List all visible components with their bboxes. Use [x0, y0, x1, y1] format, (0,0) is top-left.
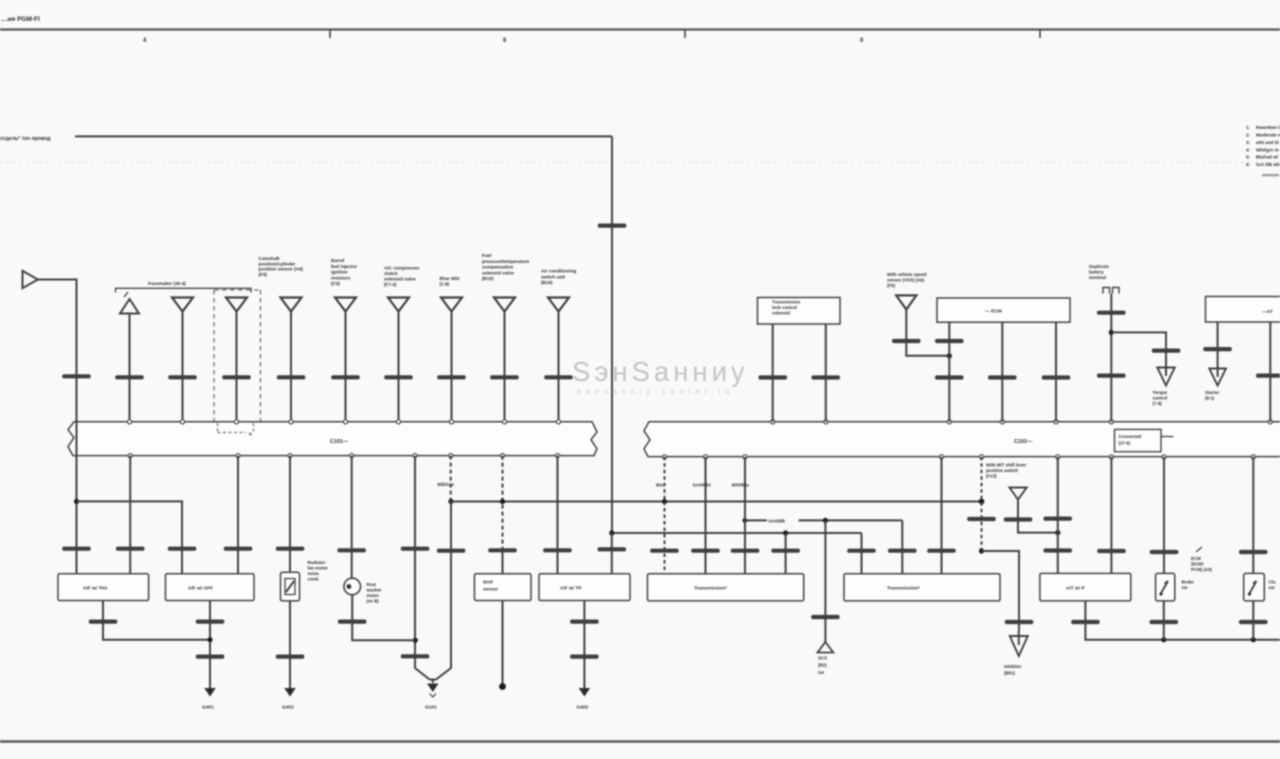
junction on left feed wire: [74, 499, 79, 504]
shared ground rail H1: [451, 501, 982, 503]
svg-text:(7-8): (7-8): [1153, 401, 1163, 406]
junction H1 x664: [662, 499, 667, 504]
wire T5 to ECM: [345, 312, 347, 422]
svg-text:position/cylinder: position/cylinder: [259, 261, 296, 266]
wire box2 bottom to ground: [209, 601, 211, 689]
connector tick: [691, 549, 720, 553]
bottom border line: [0, 740, 1280, 742]
svg-text:position switch: position switch: [986, 468, 1018, 473]
connector tick: [1097, 374, 1126, 378]
terminal arrow down C: [1010, 636, 1028, 656]
label near switches: [1191, 556, 1213, 572]
connector tick: [116, 547, 145, 551]
connector tick: [650, 549, 679, 553]
connector C4 tick: [168, 547, 197, 551]
connector tick T5: [331, 375, 360, 379]
terminal T4 (down triangle): [281, 298, 302, 312]
svg-text:switch unit: switch unit: [541, 274, 565, 279]
connector tick: [488, 548, 517, 552]
svg-text:compensation: compensation: [482, 265, 513, 270]
svg-text:Radiator: Radiator: [308, 560, 326, 565]
connector tick: [276, 547, 305, 551]
svg-text:(27-6): (27-6): [1119, 441, 1131, 446]
connector tick T9: [544, 375, 573, 379]
svg-text:— ECM: — ECM: [985, 309, 1002, 315]
connector tick T6: [384, 375, 413, 379]
wire ECM A pin6 solid: [450, 502, 452, 664]
svg-text:(B19): (B19): [541, 280, 553, 285]
box top-left (relay box): [758, 298, 841, 325]
connector tick: [771, 549, 800, 553]
svg-text:solenoid: solenoid: [772, 311, 790, 316]
connector tick: [935, 375, 964, 379]
junction H3 start: [742, 518, 747, 523]
wire main feed vertical: [611, 136, 613, 533]
wire box1 bottom: [103, 601, 210, 640]
wire ECM A pin1 to box1: [129, 456, 131, 574]
svg-text:C101—: C101—: [330, 439, 349, 445]
dashed option box: [214, 290, 261, 422]
wire ECM A pin3 to condenser: [289, 456, 291, 573]
wire TR pin1 to arrow: [1217, 322, 1219, 369]
junction H1 left end: [448, 499, 453, 504]
svg-text:motor: motor: [367, 593, 380, 598]
terminal T9 (down triangle): [548, 298, 569, 312]
terminal arrow down B: [1209, 369, 1226, 386]
svg-text:Connected: Connected: [1119, 434, 1142, 439]
svg-text:G4: G4: [818, 670, 824, 675]
wire main feed horizontal: [75, 135, 612, 137]
box1 component: [58, 574, 149, 601]
connector tick: [401, 547, 430, 551]
fuse symbol: [1103, 288, 1119, 294]
connector tick: [888, 549, 917, 553]
terminal VSS (down triangle): [896, 295, 916, 309]
junction pin5/sensor branch: [413, 638, 418, 643]
terminal T6 (down triangle): [388, 298, 409, 312]
wire pin e branch elbow: [982, 551, 1020, 630]
connector tick: [570, 620, 599, 624]
svg-text:solenoid valve: solenoid valve: [384, 277, 416, 282]
wire branch to box2: [77, 501, 183, 574]
svg-text:Transmission*: Transmission*: [694, 586, 727, 592]
wire test tap from H3: [824, 520, 826, 642]
wire DLC pin1: [948, 322, 950, 422]
svg-text:(F5): (F5): [259, 272, 268, 277]
svg-text:SэнSанниу: SэнSанниу: [572, 356, 749, 387]
wire switch1 to rail: [1163, 601, 1165, 640]
svg-text:position sensor (A6): position sensor (A6): [259, 267, 304, 272]
box8 component: [844, 574, 1000, 601]
svg-text:Air conditioning: Air conditioning: [541, 269, 576, 274]
svg-text:G402: G402: [577, 705, 589, 711]
svg-text:Transmission*: Transmission*: [887, 586, 920, 592]
label VSS sensor: [887, 272, 927, 288]
svg-text:A/F w/ OFF: A/F w/ OFF: [188, 586, 213, 592]
svg-text:lock control: lock control: [772, 305, 797, 310]
svg-text:Clu: Clu: [1269, 580, 1276, 585]
connector tick: [935, 339, 964, 343]
connector C1 on main feed: [598, 224, 627, 228]
ground G4: [579, 688, 591, 697]
svg-text:(F7-4): (F7-4): [384, 282, 397, 287]
svg-text:solenoid valve: solenoid valve: [482, 270, 514, 275]
column tick 3: [1039, 29, 1041, 38]
wire ECM B pin h to switch1: [1163, 457, 1165, 574]
terminal T3 (down triangle): [226, 298, 247, 312]
connector tick: [1097, 311, 1126, 315]
connector tick: [1239, 550, 1268, 554]
svg-text:(B15): (B15): [482, 276, 494, 281]
connector tick: [570, 655, 599, 659]
ground G1: [204, 688, 216, 697]
wire main feed into box6: [611, 533, 613, 574]
terminal T8 (down triangle): [494, 298, 515, 312]
connector tick: [276, 655, 305, 659]
wire VSS down: [906, 310, 949, 356]
connector tick: [598, 547, 627, 551]
connector C2 tick: [62, 374, 90, 378]
connector tick: [1203, 347, 1232, 351]
connector tick: [1044, 517, 1073, 521]
connector tick: [437, 549, 466, 553]
knock sensor circle: [344, 578, 361, 595]
svg-text:cond.: cond.: [308, 577, 320, 582]
connector tick: [1004, 517, 1033, 521]
svg-text:ignition: ignition: [331, 270, 348, 275]
svg-text:(ECM/: (ECM/: [1191, 562, 1204, 567]
junction H1 x502: [500, 499, 505, 504]
connector tick: [1097, 549, 1126, 553]
svg-text:(F13): (F13): [986, 474, 997, 479]
svg-text:pressure/temperature: pressure/temperature: [482, 259, 530, 264]
svg-text:G101: G101: [425, 705, 437, 711]
svg-text:Wht/grn m: Wht/grn m: [1256, 148, 1279, 153]
svg-text:Wht/Blu: Wht/Blu: [732, 483, 750, 488]
wire fuse to ECM B: [1110, 294, 1112, 422]
wire T7 to ECM: [451, 312, 453, 422]
wire fuse branch to arrow: [1111, 332, 1166, 367]
wire small triangle down-right: [1018, 500, 1058, 533]
svg-text:1:: 1:: [1246, 125, 1251, 130]
column tick 2: [684, 29, 686, 38]
svg-text:A/F w/ TP: A/F w/ TP: [560, 586, 582, 592]
svg-text:Blk/Grn: Blk/Grn: [438, 482, 455, 487]
wire ECM A pin5 down: [414, 456, 416, 663]
svg-text:(C5): (C5): [331, 281, 340, 286]
label above T4: [259, 256, 304, 277]
switch2 label: [1269, 580, 1276, 591]
svg-text:battery: battery: [1089, 270, 1104, 275]
svg-text:SCS: SCS: [818, 656, 827, 661]
svg-text:(B2): (B2): [818, 663, 827, 668]
svg-text:(1-8): (1-8): [440, 282, 450, 287]
connector tick: [1071, 620, 1100, 624]
terminal arrow down A: [1157, 368, 1174, 386]
wire from left arrow: [38, 280, 77, 575]
switch1 label: [1182, 580, 1195, 591]
svg-text:Camshaft: Camshaft: [259, 256, 280, 261]
svg-text:Starter: Starter: [1205, 390, 1219, 395]
connector tick T1: [115, 375, 144, 379]
switch2 component: [1244, 573, 1265, 601]
wire box6 bottom to ground: [583, 601, 585, 689]
svg-text:5:: 5:: [1246, 155, 1251, 160]
svg-text:Torque: Torque: [1153, 390, 1168, 395]
svg-text:4: 4: [143, 38, 147, 44]
service check terminal (up triangle): [818, 642, 834, 653]
connector tick: [89, 620, 118, 624]
svg-text:sw: sw: [1269, 585, 1275, 590]
dashed option box bottom stubs: [218, 423, 254, 433]
connector tick: [1044, 548, 1073, 552]
merge wires to ground Y: [415, 663, 451, 680]
condenser label: [308, 560, 329, 582]
svg-text:resistors: resistors: [331, 275, 351, 280]
wire DLC pin2: [1001, 322, 1003, 422]
connector tick: [1150, 550, 1179, 554]
svg-text:6:: 6:: [1246, 162, 1251, 167]
junction main feed / H2: [609, 530, 614, 535]
label above T7: [440, 276, 460, 287]
svg-text:отдель* точ провод: отдель* точ провод: [0, 136, 51, 142]
connector tick: [196, 620, 225, 624]
ECM A top pin circles: [127, 420, 560, 424]
wire ECM B pin f to box9: [1057, 457, 1059, 574]
wire ECM B pin d to box8: [941, 457, 943, 574]
connector tick: [967, 517, 996, 521]
signal rail H3 with label: [745, 519, 767, 521]
svg-text:noise: noise: [308, 571, 320, 576]
label above T8: [482, 253, 530, 281]
connector tick: [847, 549, 876, 553]
column tick 1: [329, 29, 331, 38]
wire box5 bottom to splice: [502, 601, 504, 685]
svg-text:sensor (VSS) (A6): sensor (VSS) (A6): [887, 278, 925, 283]
box5 component: [475, 574, 532, 601]
label above T5: [331, 258, 357, 286]
junction small triangle / pin f: [1055, 530, 1060, 535]
wire ECM A pin6 dashed: [450, 456, 452, 502]
connector tick: [337, 548, 366, 552]
ECM connector strip A (left bus): [68, 422, 597, 456]
ECM strip B sub connector box: [1115, 429, 1162, 451]
wire TR pin2 to ECM B: [1269, 322, 1271, 422]
svg-text:Transmission: Transmission: [772, 300, 801, 305]
wire T9 to ECM: [558, 312, 560, 422]
connector tick: [759, 375, 788, 379]
wire ECM B pin a (dashed) to box7: [664, 457, 666, 502]
wire T1 to ECM: [129, 314, 131, 422]
svg-text:A/C compressor: A/C compressor: [384, 266, 420, 271]
wire box9 bottom rail: [1085, 601, 1280, 640]
svg-text:’4: ’4: [248, 432, 252, 437]
connector tick: [1239, 620, 1268, 624]
connector tick: [892, 339, 921, 343]
wire relay pin2 to ECM B: [825, 324, 827, 422]
svg-text:Pacemaker (30-4): Pacemaker (30-4): [148, 281, 186, 286]
box ECM-DLC: [937, 298, 1070, 322]
knock sensor label: [366, 582, 382, 604]
svg-text:Grn/Wht: Grn/Wht: [693, 483, 712, 488]
terminal T5 (down triangle): [335, 298, 356, 312]
connector tick: [1150, 620, 1179, 624]
splice dot: [499, 683, 506, 690]
svg-text:fan motor: fan motor: [308, 566, 329, 571]
wire H2 right end into box8: [861, 533, 863, 574]
connector arrow left (to another sheet): [23, 271, 38, 288]
connector tick: [988, 375, 1017, 379]
junction H1 right end: [979, 499, 985, 505]
junction rail sw2: [1251, 637, 1256, 642]
wire ECM B pin g to box9: [1110, 457, 1112, 574]
svg-text:washer: washer: [366, 588, 382, 593]
svg-text:Rewritten b: Rewritten b: [1256, 125, 1280, 130]
svg-text:Inhibitor: Inhibitor: [1004, 664, 1022, 669]
svg-text:control: control: [1153, 396, 1168, 401]
junction rail sw1: [1161, 637, 1166, 642]
svg-text:fuel injector: fuel injector: [331, 264, 357, 269]
connector tick: [927, 549, 956, 553]
bracket label over T1-T3: [116, 288, 252, 292]
svg-text:6: 6: [503, 38, 507, 44]
svg-text:G402: G402: [282, 705, 294, 711]
wire ECM B pin e dashed: [981, 457, 983, 551]
svg-text:Rear: Rear: [367, 582, 377, 587]
svg-text:G401: G401: [202, 705, 214, 711]
legend top right: [1246, 125, 1280, 176]
box top-right: [1206, 297, 1280, 323]
svg-text:sansanniy-center.ru: sansanniy-center.ru: [577, 387, 734, 396]
label fuse feed: [1089, 264, 1109, 280]
connector tick T7: [437, 375, 466, 379]
svg-text:(B51): (B51): [1004, 671, 1016, 676]
wire T2 to ECM: [182, 312, 184, 422]
connector tick T3: [222, 375, 251, 379]
connector tick T8: [490, 375, 519, 379]
junction VSS / box pin: [947, 353, 952, 358]
terminal T2 (down triangle): [172, 298, 193, 312]
wire left feed crossing strip: [76, 421, 78, 458]
svg-text:MAP: MAP: [483, 580, 493, 585]
noise condenser component: [281, 572, 300, 601]
connector tick: [731, 549, 760, 553]
ground G3: [427, 684, 439, 693]
signal rail H2: [612, 532, 862, 534]
junction H2 box7 branch: [783, 530, 788, 535]
terminal from-arrow (small down triangle): [1010, 488, 1027, 500]
svg-text:C102—: C102—: [1014, 439, 1033, 445]
connector tick: [811, 615, 840, 619]
svg-text:Blu: Blu: [656, 483, 664, 488]
svg-text:sensor: sensor: [483, 587, 498, 592]
label above T6: [384, 266, 420, 288]
svg-text:ECM: ECM: [1191, 556, 1201, 561]
faint dotted separator line: [0, 162, 1280, 164]
wire T8 to ECM: [504, 312, 506, 422]
svg-text:(8-1): (8-1): [1205, 396, 1215, 401]
svg-text:Moderate w: Moderate w: [1256, 133, 1280, 138]
connector tick T2: [168, 375, 197, 379]
connector tick: [1152, 349, 1181, 353]
svg-text:wht and bl: wht and bl: [1255, 140, 1279, 145]
junction H3 x825: [823, 518, 828, 523]
svg-text:Blue Wht: Blue Wht: [440, 276, 460, 281]
svg-text:2:: 2:: [1246, 133, 1251, 138]
svg-text:Grn/Blk: Grn/Blk: [769, 519, 786, 524]
wire DLC pin3: [1055, 322, 1057, 422]
svg-text:With M/T shift lever: With M/T shift lever: [986, 463, 1027, 468]
svg-text:3:: 3:: [1246, 140, 1251, 145]
ground G2: [284, 688, 296, 697]
wire H2 branch into box7: [785, 533, 787, 574]
top border line: [0, 28, 1280, 30]
box9 component: [1040, 573, 1131, 601]
svg-text:Brake: Brake: [1182, 580, 1195, 585]
box7 component: [648, 574, 804, 601]
svg-text:(ex B): (ex B): [367, 599, 380, 604]
svg-text:Barrel: Barrel: [331, 258, 344, 263]
connector tick: [1256, 374, 1280, 378]
wire T4 to ECM: [290, 312, 292, 422]
connector tick T4: [277, 375, 306, 379]
connector tick: [543, 548, 572, 552]
wire knock sensor branch: [352, 595, 415, 640]
connector tick: [812, 375, 841, 379]
junction pin e branch: [979, 548, 984, 553]
wire ECM A pin4 to sensor circle: [351, 456, 353, 579]
box6 component: [539, 574, 630, 601]
svg-text:clutch: clutch: [384, 271, 398, 276]
svg-text:Grn blk wh: Grn blk wh: [1256, 162, 1280, 167]
wire ECM A pin8 to box6: [557, 456, 559, 574]
wire condenser to ground: [289, 601, 291, 688]
terminal T1 (up arrow): [120, 299, 139, 314]
connector tick: [1042, 375, 1071, 379]
svg-text:terminal: terminal: [1089, 275, 1106, 280]
wire switch2 to rail: [1252, 601, 1254, 640]
switch1 component: [1156, 573, 1175, 601]
label above T9: [541, 269, 576, 286]
svg-text:Blu/red wl: Blu/red wl: [1256, 155, 1278, 160]
connector tick: [196, 655, 225, 659]
ECM A bottom pin circles: [128, 454, 560, 458]
wire pin7 into box5: [502, 549, 504, 574]
connector C3 tick: [62, 547, 90, 551]
wire ECM A pin2 to box2: [237, 456, 239, 574]
svg-text:Fuel: Fuel: [482, 253, 491, 258]
ECM connector strip B (right bus): [644, 422, 1280, 457]
svg-text:4:: 4:: [1246, 148, 1251, 153]
svg-text:sw: sw: [1182, 585, 1188, 590]
svg-text:0: 0: [860, 38, 864, 44]
svg-text:A/T w/ P: A/T w/ P: [1066, 586, 1085, 592]
svg-text:A/F w/ TH1: A/F w/ TH1: [83, 586, 108, 592]
wire ECM B pin c to box7: [744, 457, 746, 574]
wire ECM A pin7 dashed: [502, 456, 504, 549]
svg-text:…ия PGM-FI: …ия PGM-FI: [1, 16, 40, 23]
connector tick: [338, 620, 367, 624]
wire ECM B pin i to switch2: [1252, 457, 1254, 574]
ECM B bottom pin circles: [662, 455, 1255, 459]
wire relay pin1 to ECM B: [772, 324, 774, 422]
wire T6 to ECM: [398, 312, 400, 422]
wire H3 right end into box8: [901, 520, 903, 574]
ECM B top pin circles: [771, 420, 1273, 424]
junction box1/box2 ground: [207, 637, 212, 642]
wire ECM B pin b to box7: [705, 457, 707, 574]
svg-text:With vehicle speed: With vehicle speed: [887, 272, 927, 277]
